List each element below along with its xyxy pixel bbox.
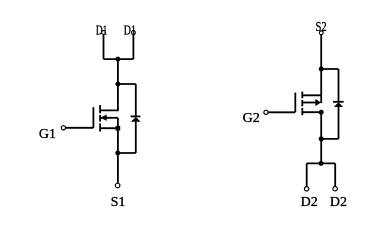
wire Q2 drain pin down xyxy=(320,112,322,163)
transistor Q2 channel bottom segment xyxy=(301,108,303,115)
transistor Q2 channel middle segment xyxy=(301,100,303,106)
wire D2 left pin vertical xyxy=(306,163,308,186)
svg-text:S2: S2 xyxy=(316,20,327,35)
diode Q2 lower wire xyxy=(338,107,340,139)
diode Q1 triangle (anode, pointing up) xyxy=(131,117,141,122)
svg-text:G1: G1 xyxy=(39,127,56,142)
wire D1 left pin vertical xyxy=(103,34,105,59)
transistor Q2 top stub xyxy=(302,94,321,96)
node D2 pin terminal circle (left) xyxy=(304,187,308,191)
transistor Q1 gate bar xyxy=(92,107,94,128)
node S2 terminal circle xyxy=(319,31,323,35)
wire G2 gate lead xyxy=(268,111,295,113)
wire source to diode branch xyxy=(321,68,338,70)
junction source node Q2 xyxy=(319,67,324,72)
wire Q1 body-to-source drop xyxy=(117,118,119,128)
node S1 terminal circle xyxy=(115,183,120,188)
node G1 terminal circle xyxy=(61,126,65,130)
wire D1 right pin vertical xyxy=(132,34,134,59)
transistor Q1 channel middle segment xyxy=(99,115,101,122)
junction Q1 source (square) xyxy=(116,126,121,131)
junction drain/diode node xyxy=(319,136,324,141)
diode Q1 cathode bar xyxy=(131,115,141,117)
wire diode cathode return xyxy=(321,138,338,140)
junction at D1 bus xyxy=(115,57,120,62)
wire D2 joining horizontal xyxy=(307,162,336,164)
transistor Q2 body arrow (points right, P-channel) xyxy=(315,99,321,106)
junction Q2 drain xyxy=(319,110,324,115)
diode body-diode of Q1: cathode wire xyxy=(135,84,137,116)
svg-text:D1: D1 xyxy=(96,24,107,39)
wire Q2 body tie xyxy=(320,95,322,103)
transistor Q2 drain stub xyxy=(302,111,321,113)
svg-text:S1: S1 xyxy=(111,195,126,210)
wire drain to diode branch xyxy=(118,83,136,85)
wire D1 joining horizontal xyxy=(104,58,134,60)
transistor Q1 body stub xyxy=(101,117,118,119)
transistor Q1 channel bottom segment xyxy=(99,123,101,131)
node D1 pin terminal circle (right) xyxy=(132,31,136,35)
svg-text:G2: G2 xyxy=(243,111,260,126)
svg-text:D2: D2 xyxy=(330,195,347,210)
svg-text:D1: D1 xyxy=(124,24,136,39)
wire Q1 drain pin xyxy=(101,84,118,110)
transistor Q2 gate bar xyxy=(294,93,296,113)
wire G1 gate lead xyxy=(66,127,94,129)
wire S2 pin vertical xyxy=(320,35,322,69)
transistor Q2 channel top segment xyxy=(301,92,303,99)
wire Q1 source pin down xyxy=(117,128,119,183)
junction source/diode node xyxy=(115,151,120,156)
wire drain bus vertical xyxy=(117,59,119,84)
junction at D2 bus xyxy=(319,161,324,166)
wire Q2 source pin xyxy=(320,69,322,95)
node G2 terminal circle xyxy=(264,110,268,114)
transistor Q1 source stub xyxy=(100,127,118,129)
node D1 pin terminal circle (left) xyxy=(102,31,106,35)
transistor Q1 body arrow (points left, N-channel) xyxy=(100,115,106,121)
wire D2 right pin vertical xyxy=(334,163,336,186)
junction drain node Q1 xyxy=(115,82,120,87)
svg-text:D2: D2 xyxy=(301,195,318,210)
diode Q2 triangle (pointing up) xyxy=(334,102,343,107)
node D2 pin terminal circle (right) xyxy=(333,187,337,191)
transistor Q1 channel top segment xyxy=(99,105,101,113)
transistor Q2 body stub xyxy=(302,102,316,104)
wire diode anode return xyxy=(118,152,136,154)
diode body-diode of Q2: anode-side wire from source node xyxy=(338,69,340,101)
diode Q2 cathode bar xyxy=(333,101,344,103)
diode Q1 anode wire xyxy=(135,122,137,153)
